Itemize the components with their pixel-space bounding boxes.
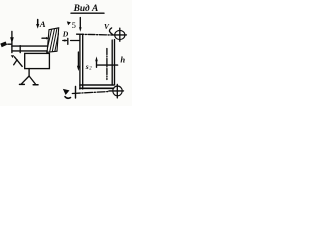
bottom beam bottom line — [80, 87, 114, 89]
svg-text:A: A — [39, 19, 46, 29]
squiggle mark bottom centre — [64, 90, 68, 94]
svg-text:Вид А: Вид А — [73, 3, 99, 14]
arrow A (view direction label) — [36, 20, 39, 29]
top roller cross vertical — [119, 28, 121, 41]
support stem under box — [28, 69, 30, 76]
bar divider — [19, 46, 21, 53]
ledge line — [97, 64, 118, 66]
hatch lines — [48, 29, 59, 52]
wheel fork right line — [114, 40, 116, 85]
svg-text:h: h — [120, 54, 125, 64]
feed down arrow above column — [79, 18, 82, 32]
tick crossing D line — [67, 38, 69, 44]
bottom roller circle — [113, 86, 122, 96]
dash-dot vertical — [106, 49, 108, 80]
down arrow on column — [77, 52, 80, 71]
svg-text:5: 5 — [72, 20, 77, 30]
left foot — [20, 83, 25, 85]
centreline start tick — [75, 86, 77, 98]
left column outer line — [79, 35, 81, 90]
down arrow on bar left end — [10, 31, 14, 52]
wheel fork left line — [111, 40, 113, 85]
top centreline (dash-dot) — [77, 33, 113, 36]
fulcrum leg short — [14, 60, 17, 65]
D dimension arrow pointing left — [62, 39, 66, 41]
title underline — [71, 12, 104, 14]
svg-text:s: s — [85, 62, 89, 71]
connector under bar right — [46, 51, 48, 54]
tick left of bar end — [8, 43, 11, 45]
bottom beam top line — [80, 84, 114, 86]
support right leg — [29, 76, 35, 84]
leader blob arrow at far left — [0, 42, 7, 48]
rotation arc arrow — [109, 28, 112, 34]
bottom roller cross vertical — [116, 84, 118, 98]
bottom centreline (dash-dot) — [72, 92, 109, 94]
svg-text:D: D — [62, 30, 69, 39]
bar (two horizontal lines) — [12, 45, 48, 47]
top roller circle — [115, 30, 125, 39]
hatched block (wheel edge view) — [47, 28, 59, 53]
bottom roller cross horizontal — [109, 90, 124, 92]
left column inner line — [82, 34, 84, 89]
fulcrum triangle under bar end — [11, 55, 14, 58]
up arrow — [95, 56, 98, 67]
leader arrowhead of 5 — [67, 21, 71, 25]
support left leg — [22, 76, 30, 84]
dimension arrow into block left — [42, 37, 49, 40]
right foot — [33, 84, 38, 86]
top roller cross horizontal — [113, 34, 127, 36]
box (workpiece table) — [25, 53, 50, 68]
D line segment to frame — [71, 40, 80, 42]
fulcrum leg long — [14, 57, 22, 67]
